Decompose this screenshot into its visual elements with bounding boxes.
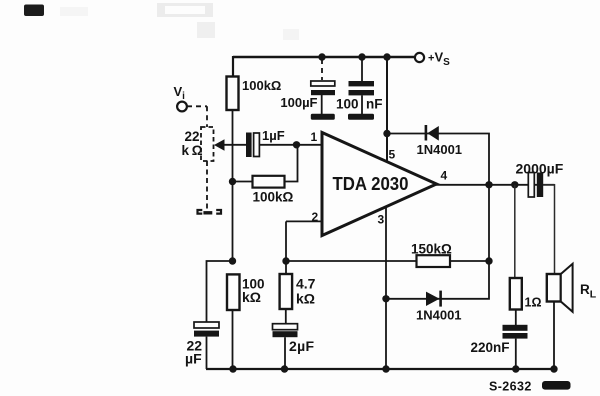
svg-text:µF: µF <box>185 351 202 367</box>
svg-text:TDA 2030: TDA 2030 <box>333 173 409 194</box>
wire C5 right to speaker drop <box>543 185 555 274</box>
wire C3 to pin1 <box>260 144 323 146</box>
capacitor C5 2000uF plates <box>528 173 534 198</box>
capacitor C4 22uF plates <box>194 322 219 328</box>
diode D2 1N4001 <box>426 291 442 307</box>
capacitor C3 1uF plates <box>246 133 252 158</box>
wire pin2 down to feedback node <box>285 221 287 261</box>
resistor R6 4.7kOhm body <box>280 274 293 309</box>
scan artifact black mark top-left <box>24 5 44 17</box>
node diode D1 junction <box>383 130 390 137</box>
wire speaker to bottom rail <box>553 302 555 370</box>
wire to R2 <box>233 181 253 183</box>
svg-text:5: 5 <box>389 148 396 162</box>
op-amp U1 TDA 2030 triangle <box>322 133 437 236</box>
ground bar below 100nF <box>348 114 374 120</box>
wire input line wiper to C3 <box>224 144 247 146</box>
resistor R1 100kOhm body <box>227 77 239 111</box>
node C7/rail <box>281 365 288 372</box>
svg-text:1N4001: 1N4001 <box>417 142 463 157</box>
resistor R2 100kOhm body <box>253 176 285 188</box>
wire R1 bottom down through input line to feedback junction <box>232 110 234 261</box>
capacitor C6 220nF plates <box>503 325 528 331</box>
node 100k/stub junction <box>229 257 236 264</box>
svg-text:1: 1 <box>311 130 318 144</box>
svg-text:220nF: 220nF <box>471 340 510 355</box>
node pin3/D2 <box>382 295 389 302</box>
wire stub to 22uF <box>207 261 233 322</box>
node feedback bottom left <box>282 257 289 264</box>
speaker RL cone <box>561 264 573 312</box>
wire +Vs top rail <box>233 56 414 58</box>
svg-text:100: 100 <box>336 97 359 112</box>
wire C7 to rail <box>284 337 286 369</box>
wire dashed pot to ground <box>206 161 208 210</box>
scan artifact faint gray shapes <box>157 3 213 17</box>
node 220nF/rail <box>512 365 519 372</box>
svg-text:k Ω: k Ω <box>182 143 203 158</box>
wire dashed stem rail to 100uF <box>321 59 323 80</box>
wire output down to R5 <box>514 185 516 278</box>
wire pin3 down to bottom rail <box>385 207 387 369</box>
capacitor C7 2uF plates <box>273 324 298 330</box>
terminal Vi circle <box>177 102 187 112</box>
svg-text:3: 3 <box>378 213 385 227</box>
svg-text:1Ω: 1Ω <box>525 296 542 310</box>
svg-text:2µF: 2µF <box>289 338 314 354</box>
wire R6 to C7 <box>285 309 287 324</box>
potentiometer 22kOhm body (dashed) <box>201 127 214 161</box>
svg-text:1µF: 1µF <box>262 128 285 143</box>
node pin3 line/rail <box>382 365 389 372</box>
diode D1 1N4001 <box>425 125 439 141</box>
wire pin5 to rail <box>386 57 388 162</box>
node speaker/rail <box>550 365 557 372</box>
svg-text:1N4001: 1N4001 <box>416 308 462 323</box>
node output/diode1 <box>485 181 492 188</box>
capacitor C1 100uF plates <box>311 81 335 86</box>
node R3/rail <box>229 365 236 372</box>
terminal +Vs circle <box>415 53 424 62</box>
speaker RL body <box>547 274 561 302</box>
wire R3 to rail <box>232 310 234 369</box>
wire output pin4 line <box>436 184 555 186</box>
svg-text:100µF: 100µF <box>280 95 317 110</box>
node feedback top junction <box>293 141 300 148</box>
svg-text:150kΩ: 150kΩ <box>411 242 452 257</box>
wire diode D1 branch <box>387 134 489 186</box>
node on rail above 100nF <box>358 53 365 60</box>
svg-text:kΩ: kΩ <box>242 289 261 305</box>
wire bottom ground rail <box>206 368 556 370</box>
wire rail corner down to R1 <box>232 56 234 77</box>
svg-text:4: 4 <box>441 169 448 183</box>
node output/boucherot <box>511 181 518 188</box>
wire dashed Vi to pot <box>187 106 207 127</box>
wire R2 to input node <box>285 145 298 182</box>
wire output vertical down to D2 <box>386 185 489 299</box>
svg-text:S-2632: S-2632 <box>489 380 532 394</box>
node on rail above pin5 <box>383 53 390 60</box>
wire feedback line to R4 <box>286 260 417 262</box>
ground bar below 100uF <box>311 114 335 120</box>
black bar bottom right <box>542 381 571 390</box>
resistor R3 100kOhm body <box>227 274 240 310</box>
ground symbol below pot <box>198 210 222 214</box>
potentiometer wiper arrow <box>214 139 225 151</box>
node 150k/output vertical <box>485 257 492 264</box>
svg-text:100kΩ: 100kΩ <box>242 78 281 93</box>
svg-text:nF: nF <box>366 97 383 112</box>
wire R4 right to output drop <box>450 260 489 262</box>
node on rail above 100uF <box>318 53 325 60</box>
wire C6 to bottom rail <box>515 339 517 369</box>
svg-text:kΩ: kΩ <box>296 291 315 307</box>
node feedback left junction <box>229 178 236 185</box>
wire pin2 line <box>286 220 322 222</box>
wire R5 to C6 <box>515 310 517 326</box>
capacitor C2 100nF plates <box>349 81 375 86</box>
wire 4.7k stem <box>285 261 287 274</box>
resistor R5 1 Ohm body <box>510 278 522 310</box>
svg-text:22: 22 <box>185 129 200 144</box>
wire stem below 100uF <box>321 95 323 114</box>
svg-text:4.7: 4.7 <box>296 276 316 292</box>
svg-text:100kΩ: 100kΩ <box>253 190 294 205</box>
wire 22uF to rail <box>206 337 208 369</box>
wire stem rail to 100nF <box>361 57 363 81</box>
resistor R4 150kOhm body <box>417 255 451 267</box>
wire stem below 100nF <box>361 95 363 114</box>
